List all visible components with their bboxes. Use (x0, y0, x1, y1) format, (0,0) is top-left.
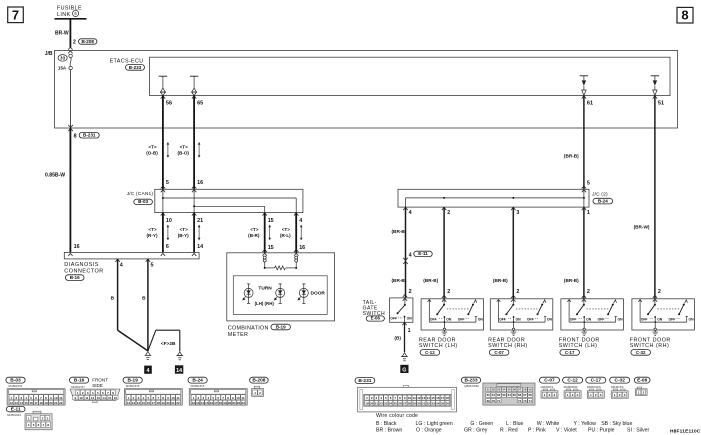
svg-text:B-24: B-24 (192, 378, 203, 384)
svg-text:4: 4 (120, 262, 123, 268)
svg-text:22: 22 (379, 402, 383, 406)
svg-text:16: 16 (197, 180, 203, 186)
svg-text:(B-O): (B-O) (177, 150, 189, 155)
svg-text:14: 14 (137, 401, 141, 405)
svg-text:15: 15 (268, 218, 274, 224)
wire CAN to diag 2 (193, 213, 195, 253)
svg-text:19: 19 (44, 401, 48, 405)
meter internal wire 2 (295, 262, 297, 268)
svg-text:10: 10 (236, 396, 240, 400)
ground point 4 (144, 366, 152, 374)
svg-text:34: 34 (436, 402, 440, 406)
svg-text:10: 10 (79, 396, 83, 400)
terminal tailgate bottom (402, 323, 406, 326)
svg-text:22: 22 (237, 401, 241, 405)
svg-text:4: 4 (409, 253, 412, 259)
svg-text:16: 16 (147, 401, 151, 405)
svg-text:QMJ01KS: QMJ01KS (611, 385, 624, 389)
terminal door switch C-12 (442, 295, 446, 298)
svg-text:16: 16 (299, 245, 305, 251)
svg-text:13: 13 (15, 401, 19, 405)
svg-text:14: 14 (176, 368, 182, 374)
tailgate switch box E-06 (390, 298, 413, 322)
ground door switch C-07 (512, 328, 514, 330)
svg-text:25: 25 (394, 402, 398, 406)
svg-text:ON: ON (586, 317, 592, 321)
connector label C-17 (560, 350, 580, 356)
svg-text:5: 5 (151, 262, 154, 268)
svg-text:21: 21 (232, 401, 236, 405)
svg-text:11: 11 (176, 396, 180, 400)
connector B-16 pinout (70, 377, 89, 383)
svg-text:C-12: C-12 (425, 350, 435, 355)
ground door switch C-17 (583, 328, 585, 330)
ECU CAN driver pin 65 (190, 75, 198, 77)
svg-text:B-19: B-19 (127, 378, 138, 384)
connector B-19 pinout (123, 377, 142, 383)
svg-text:5: 5 (587, 180, 590, 186)
wire BR-B to tailgate upper (405, 207, 407, 298)
svg-text:V : Violet: V : Violet (556, 428, 577, 434)
door switch C-07 box (490, 299, 553, 330)
svg-text:15: 15 (268, 245, 274, 251)
terminal J/C2 bottom x=405.5 (403, 207, 407, 210)
svg-text:15: 15 (142, 401, 146, 405)
connector C-17 pinout (586, 377, 606, 383)
svg-text:17: 17 (34, 401, 38, 405)
svg-text:59: 59 (529, 388, 533, 392)
svg-text:<T>: <T> (148, 227, 156, 232)
svg-text:B-233: B-233 (464, 378, 477, 384)
svg-text:(BR-B): (BR-B) (423, 278, 438, 283)
meter pin coil 1 (263, 256, 266, 259)
svg-text:<T>: <T> (148, 144, 156, 149)
twist arrow 4 (198, 226, 200, 239)
svg-text:J/C (CAN1): J/C (CAN1) (127, 191, 154, 197)
svg-text:FRONT: FRONT (92, 378, 108, 383)
svg-text:J/C (2): J/C (2) (592, 191, 608, 197)
svg-text:FUSIBLE: FUSIBLE (57, 6, 82, 12)
svg-text:61: 61 (492, 393, 496, 397)
terminal J/C top 2 (192, 186, 196, 189)
svg-text:22: 22 (59, 401, 63, 405)
svg-text:B: B (142, 296, 146, 302)
terminal diag in 16 (68, 253, 72, 256)
twist arrow 5 (269, 226, 271, 239)
svg-text:J/B: J/B (45, 51, 53, 57)
junction block J/B box (55, 50, 678, 128)
wire CAN to meter 2 (295, 213, 297, 253)
wire BR-B rear door LH (443, 207, 445, 299)
svg-text:30: 30 (417, 402, 421, 406)
J/C2 internal bus (406, 197, 584, 199)
svg-text:74: 74 (529, 399, 533, 403)
connector B-24 pinout (188, 377, 207, 383)
wire B diag pin4 (117, 259, 119, 330)
svg-text:(BR-B): (BR-B) (392, 229, 407, 234)
svg-text:OFF: OFF (598, 317, 605, 321)
svg-text:18: 18 (157, 401, 161, 405)
svg-text:55: 55 (508, 388, 512, 392)
svg-text:27: 27 (403, 402, 407, 406)
svg-text:67: 67 (523, 393, 527, 397)
terminal meter 15 (263, 249, 267, 252)
CAN bus line A (163, 197, 296, 199)
svg-text:12: 12 (192, 401, 196, 405)
svg-text:33: 33 (60, 56, 65, 61)
wire BR-W 51 to front door RH (654, 96, 656, 299)
connector B-03 pinout (6, 377, 25, 383)
ground eyelet 2 (177, 352, 182, 356)
svg-text:2: 2 (409, 289, 412, 295)
wire BR-B rear door RH (512, 207, 514, 299)
svg-text:18: 18 (219, 401, 223, 405)
svg-text:G : Green: G : Green (470, 421, 493, 427)
terminal J/C bottom x=162.9 (161, 213, 165, 216)
svg-text:51: 51 (658, 101, 664, 107)
svg-text:19: 19 (223, 401, 227, 405)
svg-text:QB66TW60: QB66TW60 (464, 384, 479, 388)
svg-text:18: 18 (446, 396, 450, 400)
terminal door switch C-32 (653, 295, 657, 298)
svg-text:<T>: <T> (250, 227, 258, 232)
svg-text:MU801629: MU801629 (7, 413, 21, 417)
terminal J/C bottom x=264.7 (263, 213, 267, 216)
svg-text:65: 65 (513, 393, 517, 397)
svg-text:2: 2 (587, 289, 590, 295)
indicator LED 2 (279, 283, 282, 285)
svg-text:Wire colour code: Wire colour code (376, 413, 418, 419)
joint connector J/C(CAN1) box (155, 189, 303, 212)
indicator LED 3 (302, 283, 305, 285)
svg-text:B : Black: B : Black (376, 421, 397, 427)
svg-text:7: 7 (12, 7, 19, 22)
svg-text:QMJ01KS: QMJ01KS (541, 385, 554, 389)
svg-text:SIDE: SIDE (92, 383, 103, 388)
svg-text:72: 72 (518, 399, 522, 403)
svg-text:LG : Light green: LG : Light green (416, 421, 453, 427)
svg-text:E-11: E-11 (11, 406, 21, 412)
svg-text:58: 58 (523, 388, 527, 392)
terminal J/C2 bottom x=583.9 (582, 207, 586, 210)
terminal at ECU pin x=583.9 (582, 96, 586, 99)
svg-text:L : Blue: L : Blue (506, 421, 524, 427)
svg-text:MU801767: MU801767 (71, 385, 85, 389)
svg-text:DOOR: DOOR (311, 290, 326, 296)
twist arrow 3 (167, 226, 169, 239)
frame page number 8 (677, 7, 693, 23)
svg-text:(B-R): (B-R) (248, 233, 260, 238)
terminal J/C2 bottom x=444.1 (442, 207, 446, 210)
svg-text:OFF: OFF (527, 317, 534, 321)
CAN bus line B (194, 205, 265, 207)
svg-text:(LH) (RH): (LH) (RH) (255, 301, 275, 306)
wire B diag pin5 (147, 259, 149, 351)
ground point G (400, 365, 408, 373)
svg-text:MU801615: MU801615 (9, 384, 23, 388)
terminal meter 16 (294, 249, 298, 252)
svg-text:12: 12 (417, 396, 421, 400)
svg-text:14: 14 (197, 244, 203, 250)
terminal at J/B bottom (68, 125, 73, 128)
connector E-11 pinout (6, 406, 25, 411)
svg-text:SB : Sky blue: SB : Sky blue (601, 421, 632, 427)
svg-text:23: 23 (384, 402, 388, 406)
svg-text:2: 2 (447, 210, 450, 216)
wire BR-B front door LH (583, 207, 585, 299)
svg-text:1: 1 (587, 210, 590, 216)
svg-text:(BR-B): (BR-B) (392, 278, 407, 283)
svg-text:MU801615: MU801615 (191, 384, 205, 388)
svg-text:B-208: B-208 (252, 378, 265, 384)
connector label C-12 (420, 350, 440, 356)
svg-text:68: 68 (529, 393, 533, 397)
wire fuse to J/B bottom (70, 70, 72, 128)
svg-text:13: 13 (422, 396, 426, 400)
svg-text:E-11: E-11 (418, 251, 428, 256)
svg-text:20: 20 (49, 401, 53, 405)
svg-text:(B-Y): (B-Y) (178, 233, 189, 238)
svg-text:ON: ON (689, 317, 695, 321)
svg-text:B-24: B-24 (598, 199, 608, 204)
terminating resistor R1 (265, 267, 275, 269)
svg-text:26: 26 (398, 402, 402, 406)
wire CAN-L 65 to J/C (193, 96, 195, 190)
svg-text:G: G (402, 367, 406, 373)
svg-text:QMW01KS: QMW01KS (587, 385, 601, 389)
ETACS-ECU box B-233 (150, 57, 670, 95)
svg-text:73: 73 (523, 399, 527, 403)
svg-text:10: 10 (54, 396, 58, 400)
connector label E-06 (366, 316, 384, 321)
svg-text:ON: ON (657, 317, 663, 321)
svg-text:OFF: OFF (641, 317, 648, 321)
svg-text:10: 10 (166, 218, 172, 224)
connector B-231 pinout (355, 378, 375, 384)
svg-text:(B): (B) (394, 335, 401, 340)
svg-text:SWITCH (LH): SWITCH (LH) (419, 343, 458, 349)
connector C-12 pinout (563, 377, 583, 383)
svg-text:17: 17 (441, 396, 445, 400)
svg-text:20: 20 (370, 402, 374, 406)
wire 0.85B-W fuse to diag pin16 (69, 128, 71, 252)
svg-text:62: 62 (497, 393, 501, 397)
wire B tailgate to ground (404, 322, 406, 352)
svg-text:11: 11 (85, 396, 89, 400)
svg-text:OFF: OFF (570, 317, 577, 321)
svg-text:13: 13 (196, 401, 200, 405)
svg-text:SI : Silver: SI : Silver (627, 428, 649, 434)
ground door switch C-12 (443, 328, 445, 330)
connector B-208 pinout (250, 377, 269, 383)
svg-text:5: 5 (166, 180, 169, 186)
svg-text:(BR-B): (BR-B) (493, 278, 508, 283)
svg-text:17: 17 (152, 401, 156, 405)
terminal at ECU pin x=194.1 (192, 96, 196, 99)
svg-text:OFF: OFF (499, 317, 506, 321)
ECU switch input driver pin 61 (580, 75, 588, 77)
twist arrow 1 (167, 143, 169, 156)
svg-text:69: 69 (487, 399, 491, 403)
J/C(CAN1) connector label B-03 (134, 199, 153, 204)
svg-text:66: 66 (518, 393, 522, 397)
svg-text:2: 2 (516, 289, 519, 295)
svg-text:65: 65 (197, 101, 203, 107)
svg-text:16: 16 (210, 401, 214, 405)
svg-text:29: 29 (412, 402, 416, 406)
svg-text:6: 6 (166, 244, 169, 250)
terminal door switch C-17 (582, 295, 586, 298)
svg-text:33: 33 (431, 402, 435, 406)
svg-text:52: 52 (492, 388, 496, 392)
svg-text:10: 10 (408, 396, 412, 400)
svg-text:71: 71 (497, 399, 501, 403)
svg-text:BR-W: BR-W (55, 30, 69, 36)
svg-text:2: 2 (73, 40, 76, 46)
ground door switch C-32 (654, 328, 656, 330)
svg-text:(O-B): (O-B) (146, 150, 158, 155)
svg-text:B-233: B-233 (129, 65, 142, 70)
svg-text:23: 23 (241, 401, 245, 405)
svg-text:53: 53 (497, 388, 501, 392)
svg-text:GR : Grey: GR : Grey (464, 428, 488, 434)
svg-text:19: 19 (365, 402, 369, 406)
svg-text:B-16: B-16 (70, 275, 80, 280)
svg-text:B-16: B-16 (74, 378, 85, 384)
connector label B-19 meter (271, 324, 290, 330)
svg-text:13: 13 (97, 396, 101, 400)
wire CAN-H 56 to J/C (162, 96, 164, 190)
terminal door switch C-07 (511, 295, 515, 298)
svg-text:(R-L): (R-L) (280, 233, 291, 238)
svg-text:14: 14 (427, 396, 431, 400)
svg-text:ETACS-ECU: ETACS-ECU (110, 58, 144, 64)
connector label B-208 (79, 39, 97, 44)
meter pin coil 2 (295, 256, 298, 259)
svg-text:C-12: C-12 (567, 378, 578, 384)
svg-text:32: 32 (427, 402, 431, 406)
wire CAN to meter 1 (264, 213, 266, 253)
connector C-07 pinout (540, 377, 560, 383)
svg-text:R : Red: R : Red (500, 428, 518, 434)
svg-text:12: 12 (91, 396, 95, 400)
svg-text:1: 1 (408, 328, 411, 334)
connector C-32 pinout (610, 377, 630, 383)
svg-text:H8F11E110C: H8F11E110C (670, 429, 701, 435)
wire to ground 2B (148, 330, 156, 351)
terminal J/C bottom x=194.1 (192, 213, 196, 216)
svg-text:OFF: OFF (390, 317, 397, 321)
svg-text:56: 56 (166, 101, 172, 107)
svg-text:OFF: OFF (430, 317, 437, 321)
svg-text:O : Orange: O : Orange (416, 428, 442, 434)
svg-text:<T>: <T> (180, 227, 188, 232)
terminal at ECU pin x=162.9 (161, 96, 165, 99)
terminal diag in 14 (192, 253, 196, 256)
svg-text:2: 2 (447, 289, 450, 295)
svg-text:B: B (111, 296, 115, 302)
svg-text:8: 8 (681, 8, 688, 23)
svg-text:54: 54 (502, 388, 506, 392)
connector crossing E-11 (403, 258, 408, 261)
svg-text:16: 16 (74, 244, 80, 250)
svg-text:16: 16 (114, 396, 118, 400)
svg-text:18: 18 (39, 401, 43, 405)
svg-text:8: 8 (74, 134, 77, 140)
door switch C-12 box (421, 299, 484, 330)
svg-text:4: 4 (299, 218, 302, 224)
svg-text:METER: METER (228, 332, 248, 338)
svg-text:OFF: OFF (458, 317, 465, 321)
twist arrow 6 (300, 226, 302, 239)
svg-text:B-231: B-231 (358, 378, 371, 384)
svg-text:PU : Purple: PU : Purple (588, 428, 615, 434)
ground eyelet tailgate (402, 353, 407, 357)
joint connector J/C(2) box (398, 189, 589, 207)
svg-text:MU801615: MU801615 (126, 384, 140, 388)
svg-text:<T>: <T> (180, 144, 188, 149)
svg-text:12: 12 (10, 401, 14, 405)
svg-text:57: 57 (518, 388, 522, 392)
svg-text:C-32: C-32 (614, 378, 625, 384)
terminal J/C2 bottom x=513.3 (511, 207, 515, 210)
svg-text:B-03: B-03 (10, 378, 21, 384)
svg-text:21: 21 (171, 401, 175, 405)
frame page number 7 (8, 7, 24, 23)
svg-text:E-06: E-06 (637, 378, 647, 384)
connector label B-231 (79, 132, 99, 138)
svg-text:10: 10 (171, 396, 175, 400)
svg-text:36: 36 (446, 402, 450, 406)
door switch C-17 box (561, 299, 624, 330)
terminal into J/B (68, 47, 72, 50)
ETACS-ECU connector label B-233 (126, 65, 145, 71)
ground point 14 (175, 365, 183, 373)
terminal J/C top 1 (161, 186, 165, 189)
svg-text:15: 15 (108, 396, 112, 400)
terminal diag out 4 (115, 259, 119, 262)
connector label B-16 (65, 275, 84, 281)
svg-text:B-19: B-19 (276, 324, 286, 329)
svg-text:21: 21 (54, 401, 58, 405)
svg-text:B-03: B-03 (138, 199, 148, 204)
svg-text:15A: 15A (58, 66, 67, 71)
twist arrow 2 (198, 143, 200, 156)
svg-text:SWITCH (RH): SWITCH (RH) (630, 343, 670, 349)
terminal at ECU pin x=654.9 (653, 96, 657, 99)
door switch C-32 box (632, 299, 695, 330)
svg-text:C-07: C-07 (494, 350, 504, 355)
diagnosis connector bar B-16 (64, 252, 199, 259)
svg-text:16: 16 (29, 401, 33, 405)
svg-text:35: 35 (441, 402, 445, 406)
svg-text:ON: ON (618, 317, 624, 321)
svg-text:16: 16 (436, 396, 440, 400)
svg-text:15: 15 (431, 396, 435, 400)
svg-text:21: 21 (375, 402, 379, 406)
svg-text:P : Pink: P : Pink (528, 428, 546, 434)
connector label C-07 (489, 350, 509, 356)
terminal J/C bottom x=296.2 (294, 213, 298, 216)
terminal diag in 6 (161, 253, 165, 256)
svg-text:SWITCH (RH): SWITCH (RH) (488, 343, 528, 349)
svg-text:ON: ON (407, 317, 413, 321)
svg-text:OFF: OFF (669, 317, 676, 321)
svg-text:TURN: TURN (258, 285, 272, 291)
svg-text:12: 12 (127, 401, 131, 405)
svg-text:LINK: LINK (57, 12, 70, 18)
tailgate switch internals (404, 298, 406, 305)
